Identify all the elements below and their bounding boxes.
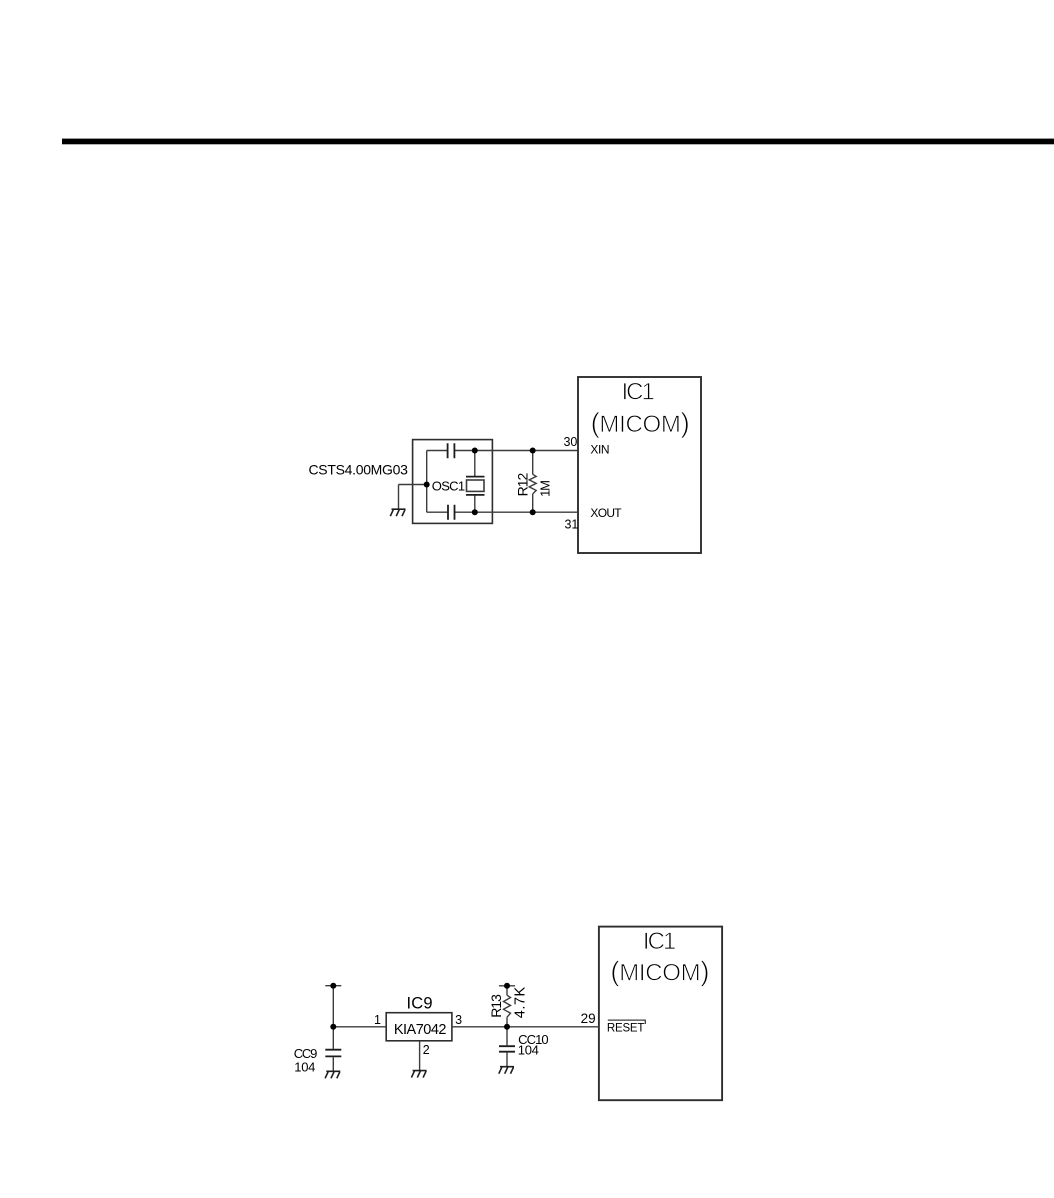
svg-text:IC1: IC1 (643, 928, 676, 955)
svg-text:104: 104 (294, 1060, 315, 1075)
svg-text:(MICOM): (MICOM) (591, 407, 690, 438)
svg-text:2: 2 (423, 1043, 430, 1057)
svg-text:4.7K: 4.7K (513, 986, 529, 1018)
svg-text:29: 29 (581, 1011, 596, 1026)
svg-text:3: 3 (455, 1013, 462, 1027)
svg-text:IC1: IC1 (622, 378, 655, 405)
svg-text:OSC1: OSC1 (432, 478, 465, 493)
svg-text:31: 31 (564, 518, 578, 532)
svg-text:1M: 1M (537, 481, 552, 497)
svg-text:(MICOM): (MICOM) (610, 956, 709, 987)
svg-text:104: 104 (518, 1043, 539, 1058)
svg-text:R13: R13 (488, 994, 504, 1018)
svg-text:30: 30 (563, 435, 577, 449)
svg-text:1: 1 (374, 1013, 381, 1027)
svg-text:RESET: RESET (607, 1023, 645, 1035)
svg-text:XIN: XIN (590, 442, 609, 456)
svg-text:CSTS4.00MG03: CSTS4.00MG03 (309, 461, 409, 477)
svg-text:KIA7042: KIA7042 (394, 1022, 447, 1038)
svg-text:IC9: IC9 (406, 994, 432, 1012)
svg-text:R12: R12 (515, 473, 531, 497)
svg-text:XOUT: XOUT (590, 506, 622, 520)
